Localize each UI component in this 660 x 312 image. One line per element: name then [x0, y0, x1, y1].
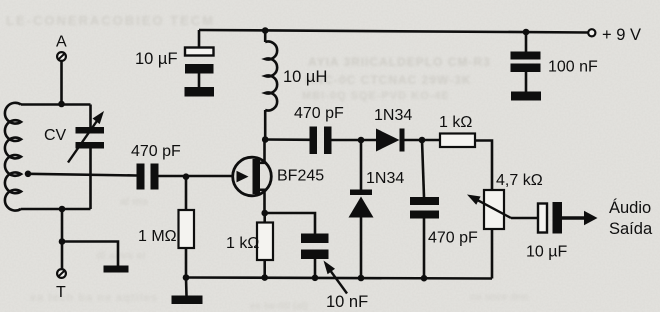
wire bottom ground rail: [186, 278, 492, 279]
wire C5 to D1: [332, 139, 377, 142]
svg-text:CV: CV: [44, 127, 67, 144]
node 100nF junction: [523, 29, 530, 36]
output arrow: [562, 211, 598, 225]
svg-text:Saída: Saída: [609, 220, 653, 238]
capacitor C4 100nF: [511, 32, 541, 92]
svg-text:100 nF: 100 nF: [548, 59, 598, 76]
terminal T: [57, 269, 66, 278]
diode D1 1N34 (series): [376, 129, 440, 152]
node D2 junction: [358, 137, 365, 144]
node source junction: [261, 210, 268, 217]
resistor R2 1k (source): [257, 213, 273, 278]
svg-text:Áudio: Áudio: [609, 198, 651, 217]
wire C1 to gate: [159, 175, 234, 178]
terminal +9V (open circle): [588, 29, 595, 36]
node tank bottom junction: [59, 206, 66, 213]
node R2 bottom rail: [261, 274, 268, 281]
capacitor C5 470pF (detector coupling): [310, 127, 332, 155]
node D2 bottom rail: [358, 275, 365, 282]
node C2 bottom rail: [312, 275, 319, 282]
wire from rail to C3: [198, 30, 201, 48]
svg-text:10 nF: 10 nF: [326, 293, 368, 311]
wire top supply rail: [199, 30, 588, 33]
wire to main ground: [185, 278, 188, 297]
svg-text:A: A: [56, 34, 67, 51]
label 10nF with pointer arrow: [324, 261, 369, 312]
svg-text:10 µF: 10 µF: [526, 244, 567, 261]
svg-text:1 MΩ: 1 MΩ: [138, 228, 177, 245]
svg-text:10 µH: 10 µH: [283, 68, 327, 86]
wire A to tank: [60, 61, 63, 104]
svg-text:1 kΩ: 1 kΩ: [226, 235, 259, 252]
ground (tank): [104, 266, 129, 273]
svg-text:470 pF: 470 pF: [131, 143, 181, 160]
svg-text:1 kΩ: 1 kΩ: [439, 114, 472, 131]
node C6 bottom rail: [421, 275, 428, 282]
capacitor C6 470pF (filter): [410, 140, 439, 278]
svg-text:T: T: [56, 284, 66, 301]
svg-text:1N34: 1N34: [366, 170, 404, 187]
wire coil tap to C1: [28, 174, 137, 176]
capacitor C1 470pF (coupling): [137, 164, 159, 190]
svg-text:10 µF: 10 µF: [135, 50, 178, 68]
ground (main): [172, 296, 203, 305]
node A-tank junction: [58, 101, 65, 108]
svg-text:BF245: BF245: [277, 168, 324, 185]
wire tank top: [21, 103, 91, 106]
ground (below C4): [511, 92, 541, 101]
node drain junction: [262, 136, 269, 143]
wire tank bottom: [21, 208, 91, 211]
label Audio Saida: [609, 198, 653, 238]
terminal A (antenna): [57, 52, 66, 61]
capacitor C7 10uF (output, electrolytic): [538, 202, 562, 234]
node coil tap: [25, 171, 32, 178]
svg-text:470 pF: 470 pF: [294, 105, 344, 122]
wire source to C2: [265, 213, 315, 234]
ground (below C3): [185, 87, 215, 97]
wire tank to T: [61, 209, 64, 269]
diode D2 1N34 (shunt to ground): [349, 140, 374, 278]
svg-text:470 pF: 470 pF: [428, 230, 478, 247]
resistor R3 1k (output): [440, 134, 492, 191]
resistor R1 1M: [179, 177, 195, 278]
potentiometer P1 4.7k: [467, 190, 538, 279]
inductor L2 10uH: [265, 31, 277, 140]
node drain-rail junction: [262, 27, 269, 34]
faint scan bleed-through texture (decorative): [6, 13, 215, 28]
node T-ground branch: [59, 238, 66, 245]
svg-text:1N34: 1N34: [374, 107, 412, 124]
node gate junction: [183, 173, 190, 180]
node R1 bottom / rail: [183, 274, 190, 281]
wire detector line: [265, 138, 310, 141]
transistor Q1 BF245 (JFET): [233, 140, 272, 214]
wire branch to ground: [62, 242, 118, 267]
capacitor C2 10nF (source bypass): [301, 234, 329, 278]
inductor L1 tank coil: [5, 103, 21, 211]
capacitor C3 10uF (supply decoupling, electrolytic): [185, 48, 214, 88]
svg-text:4,7 kΩ: 4,7 kΩ: [496, 172, 543, 189]
variable capacitor CV: [68, 105, 104, 210]
svg-text:+ 9 V: + 9 V: [602, 26, 641, 44]
node C6 junction: [419, 137, 426, 144]
